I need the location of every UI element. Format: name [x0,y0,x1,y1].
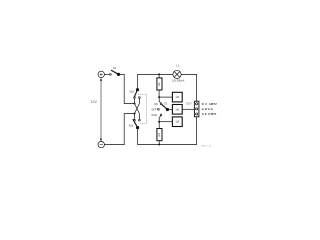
wire: S3 GND contact down to row3 [159,116,161,122]
wire: S3 pole to R3 [169,108,173,110]
svg-text:1k0: 1k0 [175,108,180,111]
node: row3 / R5 top [158,121,160,123]
wire: S2b pole down to 0V rail [138,129,159,145]
wire: OUT bottom to 0V rail [159,117,196,145]
svg-text:D: D [202,102,204,106]
svg-text:L1: L1 [176,63,179,67]
wire: row1 to R2 [159,96,172,98]
junction: S1 feed to crossover [134,103,136,105]
resistor R3 [172,105,182,115]
12V supply annotation arrow [100,78,102,142]
svg-text:1k0: 1k0 [158,82,161,87]
pin legend text [202,102,217,116]
svg-text:B: B [205,107,207,111]
svg-text:MT2: MT2 [211,102,217,106]
svg-text:GND: GND [151,113,157,117]
wire: top rail S2a pole riser to lamp [138,73,173,75]
crossover wiring of reversing switch [135,99,140,120]
svg-text:E: E [205,112,207,116]
switch S1 [110,70,120,76]
node: R1 bottom / row1 [158,96,160,98]
svg-text:S2a: S2a [129,89,134,93]
svg-text:S: S [202,112,204,116]
wire: row1 node down to S3 ON contact [159,97,160,103]
wire: S1 to corner, down to S2a left input [120,74,134,103]
mechanical coupling dashed link S2 [138,95,146,124]
svg-text:S3: S3 [164,101,168,105]
svg-text:MT1: MT1 [211,112,217,116]
svg-text:G: G [211,107,214,111]
wire: lamp to right rail down to OUT connector [181,74,197,101]
resistor R5 [157,122,162,145]
selector switch S3 [158,103,169,116]
svg-text:12V 500mA: 12V 500mA [172,80,185,83]
resistor R2 [172,92,182,102]
svg-text:S2b: S2b [129,123,134,127]
svg-text:130418 - 11: 130418 - 11 [201,145,212,147]
wire: row3 to R4 [159,121,172,123]
resistor R4 [172,117,182,127]
switch S2a (pole and throws) [134,74,141,98]
switch S2b (throws and pole) [133,119,140,129]
node: R5 bottom / 0V rail [158,144,160,146]
terminal - (battery minus) [98,141,104,147]
node: top rail / R1 [158,73,160,75]
svg-text:S1: S1 [113,66,117,70]
svg-text:1k0: 1k0 [158,132,161,137]
svg-text:1k0: 1k0 [175,121,180,124]
svg-text:OUT: OUT [186,102,192,106]
junction: 0V feed to crossover [134,113,136,115]
svg-text:OFF: OFF [151,107,157,111]
connector OUT [194,101,199,117]
wire: minus terminal to corner, up to S2 lower input [104,114,133,145]
wire: R3 to OUT middle pin [182,108,194,110]
svg-text:1k0: 1k0 [175,96,180,99]
lamp L1 [173,70,181,78]
terminal + (battery plus) [98,71,104,77]
wire: + terminal to S1 [104,73,109,75]
svg-text:ON: ON [154,102,158,106]
svg-text:12V: 12V [91,100,98,104]
resistor R1 [157,74,162,96]
